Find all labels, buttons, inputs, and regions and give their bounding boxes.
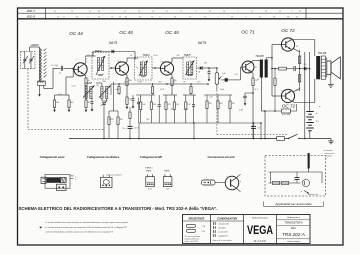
svg-text:120: 120 — [96, 85, 99, 87]
svg-text:4K7: 4K7 — [146, 119, 149, 121]
svg-text:TMF5: TMF5 — [183, 53, 191, 57]
svg-text:a carta 10%: a carta 10% — [218, 230, 228, 233]
svg-text:71: 71 — [63, 16, 65, 18]
svg-text:10 pF: 10 pF — [124, 82, 128, 84]
wire OC71 collector — [251, 61, 253, 63]
wire speaker to ground — [330, 75, 332, 85]
svg-text:100: 100 — [171, 109, 174, 111]
svg-text:MOD. B: MOD. B — [27, 17, 36, 19]
svg-text:8: 8 — [88, 16, 89, 18]
resistor bias at x166 — [165, 102, 167, 110]
inset resistor 2 — [282, 181, 289, 184]
transistor OC72 top — [281, 38, 294, 51]
wire fuse to switch — [285, 138, 289, 140]
svg-text:1 W: 1 W — [202, 231, 205, 233]
svg-text:schema elettrico: schema elettrico — [287, 240, 300, 243]
wire R2 drop — [68, 95, 70, 100]
aerial terminal stubs — [70, 175, 74, 177]
inset wire top — [269, 171, 323, 173]
svg-text:Radio Ricevitore: Radio Ricevitore — [252, 217, 269, 220]
svg-text:50: 50 — [59, 73, 61, 75]
svg-text:vista lato saldature: vista lato saldature — [106, 173, 122, 176]
variable capacitor CV1 — [23, 58, 26, 60]
svg-text:25: 25 — [255, 67, 257, 69]
svg-text:12: 12 — [57, 16, 59, 18]
svg-text:29: 29 — [231, 16, 233, 18]
svg-text:54: 54 — [296, 16, 298, 18]
svg-text:81: 81 — [125, 16, 127, 18]
capacitor legend symbols — [213, 222, 215, 225]
wire TMF4 to OC45b base — [152, 67, 161, 69]
wire TRU05 secondary top — [265, 58, 267, 60]
chassis below antenna — [39, 92, 41, 96]
svg-text:75: 75 — [189, 16, 191, 18]
wire bias to diode — [300, 68, 304, 70]
resistor bias at x185 — [185, 102, 187, 110]
wire secondary to OC72 top base — [271, 45, 273, 97]
oscillator coil LB468 — [85, 87, 87, 99]
wire OC72b collector — [292, 101, 295, 103]
wire coil tap to C1 — [43, 85, 45, 88]
speaker — [327, 61, 331, 75]
svg-text:OC 45: OC 45 — [165, 30, 179, 35]
wire OC45a collector — [125, 62, 127, 64]
tuning gang dashed box — [21, 51, 36, 68]
svg-text:5K6: 5K6 — [120, 119, 123, 121]
ground symbol right — [328, 140, 334, 142]
wire R17 to rail — [252, 86, 254, 139]
aerial connector left — [41, 177, 46, 183]
wire resistor to cap — [287, 68, 294, 70]
wire base bias tee — [72, 68, 74, 77]
svg-text:CONDENSATORI: CONDENSATORI — [217, 217, 237, 220]
wire net segment a — [136, 94, 155, 96]
svg-text:TRU05: TRU05 — [255, 54, 264, 58]
svg-text:batteria auto: batteria auto — [308, 193, 318, 196]
capacitor C11 — [208, 71, 211, 73]
chassis under C6 — [132, 104, 134, 108]
diode 0A79 detector — [200, 66, 202, 70]
svg-text:6: 6 — [246, 16, 247, 18]
svg-text:42: 42 — [54, 11, 56, 13]
svg-text:9 V: 9 V — [316, 121, 320, 123]
resistor R17 emitter OC71 — [252, 78, 254, 86]
svg-text:C17: C17 — [258, 128, 261, 130]
svg-text:OC 72: OC 72 — [282, 104, 296, 109]
junction secondary mid — [299, 68, 301, 70]
svg-text:Le tensioni possono variare en: Le tensioni possono variare entro un cam… — [46, 226, 127, 229]
socket pill pictogram — [202, 180, 216, 185]
svg-text:69: 69 — [138, 11, 140, 13]
svg-text:OC 44: OC 44 — [69, 31, 83, 36]
switch link dashed — [216, 90, 218, 135]
svg-text:10%: 10% — [197, 82, 201, 84]
svg-text:51: 51 — [204, 16, 206, 18]
svg-text:10: 10 — [124, 11, 126, 13]
electrolytic C9 — [128, 125, 133, 127]
battery 9V — [306, 111, 313, 113]
svg-text:TRS 202-A: TRS 202-A — [282, 232, 305, 237]
svg-text:8K2: 8K2 — [220, 103, 223, 105]
capacitor at x193 — [192, 104, 195, 106]
transistor OC44 — [74, 63, 87, 76]
svg-text:5: 5 — [238, 11, 239, 13]
junction rail diode — [309, 68, 311, 70]
capacitor C7a — [137, 101, 140, 103]
capacitor C16 — [293, 66, 295, 71]
antenna secondary winding — [38, 81, 46, 85]
AGC wire — [93, 51, 135, 53]
svg-text:10: 10 — [189, 61, 191, 63]
svg-text:8K2: 8K2 — [71, 102, 74, 104]
title block divider 2 — [243, 215, 245, 244]
svg-text:72: 72 — [259, 16, 261, 18]
resistor R7 emitter — [126, 78, 128, 86]
wire net segment c — [183, 94, 196, 96]
svg-text:680: 680 — [129, 80, 132, 82]
model col sep 2 — [277, 224, 311, 226]
title block header line — [183, 220, 244, 222]
svg-text:3K3: 3K3 — [153, 104, 156, 106]
wire R5 — [108, 111, 110, 117]
capacitor C14 bypass — [243, 95, 247, 97]
wire TMF3 secondary to OC45 base — [109, 67, 116, 69]
oscillator socket box — [101, 177, 113, 187]
resistor AGC a — [118, 87, 120, 94]
wire OC72t collector — [292, 39, 294, 42]
svg-text:74: 74 — [174, 16, 176, 18]
svg-text:75: 75 — [180, 11, 182, 13]
svg-text:16: 16 — [111, 16, 113, 18]
svg-text:7: 7 — [218, 16, 219, 18]
svg-text:TMF4: TMF4 — [142, 53, 150, 57]
svg-text:Collegamenti aerei: Collegamenti aerei — [40, 155, 65, 159]
svg-text:elettrolitici: elettrolitici — [218, 226, 227, 229]
IF transformer TMF3 dashed box — [92, 53, 109, 80]
svg-text:18: 18 — [273, 16, 275, 18]
chassis under R1 — [54, 108, 56, 112]
wire gang to coil top — [29, 47, 31, 51]
transistor OC45 second — [160, 62, 173, 75]
resistor R3 emitter OC44 — [85, 78, 87, 86]
riser x139 — [138, 123, 140, 139]
oscillator trimmer cap — [102, 102, 106, 104]
riser x194 — [193, 123, 195, 139]
car adapter dashed box — [265, 156, 326, 197]
riser x261 — [260, 123, 262, 139]
resistor R1 — [53, 100, 55, 108]
svg-text:55: 55 — [76, 16, 78, 18]
svg-text:+: + — [316, 111, 318, 115]
inset wire bottom — [269, 182, 301, 184]
svg-text:38: 38 — [287, 16, 289, 18]
capacitor C6 bypass — [132, 98, 135, 100]
svg-text:73: 73 — [98, 16, 100, 18]
chassis under R2 — [68, 108, 70, 112]
junction emitter node — [252, 92, 254, 94]
wire mid network — [272, 68, 279, 70]
junction base node — [72, 68, 74, 70]
aerial plug box — [57, 184, 67, 190]
svg-text:31: 31 — [299, 11, 301, 13]
svg-text:VEGA: VEGA — [247, 225, 273, 237]
svg-text:OC 45: OC 45 — [119, 30, 133, 35]
wire pot bottom — [216, 84, 218, 90]
switch lever — [289, 134, 298, 138]
svg-text:C1 47 pF: C1 47 pF — [51, 65, 59, 67]
wire osc coil to trimmer — [101, 99, 103, 102]
svg-text:2: 2 — [76, 60, 77, 62]
svg-text:5 KpF: 5 KpF — [220, 89, 225, 91]
svg-text:4K7: 4K7 — [88, 102, 91, 104]
resistor R2 — [68, 100, 70, 108]
svg-text:Le tensioni indicate sono stat: Le tensioni indicate sono state misurate… — [46, 221, 128, 224]
svg-text:51: 51 — [89, 11, 91, 13]
wire TMF3 feed — [109, 110, 118, 112]
wire rail to fuse — [265, 138, 277, 140]
svg-text:al morsetto: al morsetto — [324, 149, 333, 152]
svg-text:TMF4 e: TMF4 e — [145, 167, 153, 170]
wire diode to rail — [306, 68, 310, 70]
svg-text:Collegamenti oscillatore: Collegamenti oscillatore — [87, 155, 120, 159]
transistor OC71 — [242, 61, 254, 73]
wire switch to battery — [299, 138, 310, 140]
table divider left — [45, 8, 47, 19]
capacitor C3a — [91, 101, 94, 103]
svg-text:7: 7 — [112, 11, 113, 13]
wire emitter resistor down — [85, 86, 87, 101]
IF transformer TMF5 dashed box — [183, 57, 197, 79]
svg-text:OC 72: OC 72 — [281, 28, 295, 33]
aerial rod hatched end — [61, 177, 67, 183]
svg-text:25 μF: 25 μF — [239, 110, 243, 112]
resistor R18 horizontal — [279, 67, 287, 70]
volume potentiometer — [215, 73, 218, 85]
wire R11 down — [171, 86, 173, 96]
svg-text:50: 50 — [257, 79, 259, 81]
aerial ferrite rod dark — [47, 177, 61, 183]
rail x310 — [309, 110, 311, 112]
svg-text:8: 8 — [196, 11, 197, 13]
title block divider 1 — [210, 215, 212, 244]
svg-text:56: 56 — [265, 11, 267, 13]
resistor bias at x140 — [140, 102, 142, 110]
svg-text:TMF3: TMF3 — [94, 49, 102, 53]
svg-text:22 nF: 22 nF — [153, 55, 157, 57]
wire secondary to OC72 bottom base — [272, 95, 281, 97]
resistor R15 — [217, 101, 219, 109]
title block divider 3 — [276, 215, 278, 244]
resistor R22 horizontal — [282, 109, 291, 113]
svg-text:4K7: 4K7 — [159, 82, 162, 84]
oscillator socket pins — [102, 175, 104, 178]
svg-text:C10: C10 — [209, 97, 212, 99]
svg-text:C8: C8 — [173, 82, 175, 84]
junction x305 rail — [309, 102, 311, 104]
svg-text:antenna del: antenna del — [324, 152, 334, 155]
svg-text:5K6: 5K6 — [184, 109, 187, 111]
svg-text:RESISTENZE: RESISTENZE — [189, 217, 205, 220]
wire OC45b emitter — [170, 73, 172, 75]
svg-text:9: 9 — [292, 11, 293, 13]
wire net segment b — [163, 94, 177, 96]
wire C1 to base OC44 — [63, 67, 73, 69]
resistor R8 — [126, 97, 128, 105]
inset resistor 1 — [273, 181, 280, 184]
svg-text:13: 13 — [152, 11, 154, 13]
capacitor C1 — [60, 66, 62, 71]
svg-text:1K2: 1K2 — [176, 55, 179, 57]
svg-text:28: 28 — [223, 11, 225, 13]
wire osc top to OC44 — [85, 86, 87, 87]
junction detector out — [208, 67, 210, 69]
wire R22 to rail — [291, 110, 297, 112]
diode 0A79 AGC — [112, 50, 114, 54]
svg-text:Corrente della batteria assorb: Corrente della batteria assorbita a ripo… — [46, 231, 114, 234]
ground rail y123 — [139, 122, 261, 124]
driver transformer TRU05 secondary — [265, 60, 268, 78]
wire R6 — [117, 111, 119, 117]
svg-text:1600: 1600 — [102, 81, 106, 83]
ground under speaker — [328, 84, 334, 86]
resistor R6 — [117, 117, 119, 125]
svg-text:29: 29 — [119, 16, 121, 18]
electrolytic C17 — [251, 125, 256, 127]
rail x305 — [309, 52, 311, 111]
svg-text:Radioricevitore: Radioricevitore — [287, 216, 300, 219]
MF transformer pictogram 2 — [163, 177, 172, 187]
bias chain wire — [299, 50, 301, 91]
svg-text:e: e — [227, 176, 228, 178]
wire AGC left drop — [110, 84, 112, 95]
svg-text:b: b — [240, 181, 241, 183]
model col sep 1 — [277, 219, 311, 221]
MF transformer pictogram 1 — [146, 177, 155, 187]
svg-text:4 B 5: 4 B 5 — [148, 188, 152, 190]
resistor R5 — [108, 117, 110, 125]
IF transformer TMF4 dashed box — [135, 57, 153, 80]
capacitor at x159 — [158, 104, 161, 106]
chassis under R4 — [85, 108, 87, 112]
svg-text:C7: C7 — [142, 61, 144, 63]
wire primary top — [314, 55, 316, 57]
svg-text:Collegamenti MF: Collegamenti MF — [140, 155, 163, 159]
svg-text:400 OHM: 400 OHM — [282, 114, 290, 116]
output stage top line — [293, 39, 315, 41]
driver transformer TRU05 primary — [260, 60, 263, 78]
resistor R14 base bias — [229, 101, 231, 109]
wire OC71 emitter — [251, 72, 253, 74]
wire OC45a emitter — [125, 73, 127, 75]
wire OC44 collector — [84, 63, 86, 65]
resistor AGC c — [190, 87, 192, 94]
resistor legend symbol 2 — [187, 229, 196, 232]
wire cap to OC71 base — [234, 79, 241, 81]
svg-text:C13: C13 — [234, 74, 237, 76]
junction TRU05 rail — [264, 138, 266, 140]
resistor R9 above C9 — [129, 112, 131, 119]
resistor R21 bias bottom — [299, 75, 301, 83]
supply rail y138 — [69, 138, 265, 140]
svg-text:OC 71: OC 71 — [241, 30, 255, 35]
svg-text:0A79: 0A79 — [109, 41, 117, 45]
svg-text:65: 65 — [209, 11, 211, 13]
svg-text:20: 20 — [71, 11, 73, 13]
wire secondary down — [39, 85, 41, 92]
svg-text:LB469: LB469 — [31, 43, 39, 47]
aerial wire loop — [45, 175, 70, 189]
gang mechanical dashed link vertical — [27, 69, 29, 130]
rail x314 — [314, 40, 316, 57]
fuse resistor box — [277, 137, 285, 141]
svg-text:47: 47 — [166, 11, 168, 13]
svg-text:LB468: LB468 — [85, 82, 93, 85]
title block outer box — [183, 215, 311, 244]
table bottom thick line — [18, 18, 344, 20]
svg-text:TMF5: TMF5 — [164, 170, 170, 172]
output transformer TRU06 secondary — [321, 56, 325, 79]
svg-text:75: 75 — [151, 16, 153, 18]
svg-text:54: 54 — [279, 11, 281, 13]
wire R7 down — [126, 86, 128, 98]
wire diode to volume — [203, 67, 217, 69]
svg-text:81: 81 — [139, 16, 141, 18]
svg-text:12: 12 — [251, 11, 253, 13]
wire R1 drop — [54, 95, 56, 100]
model col sep 3 — [277, 238, 311, 240]
AGC distribution wire — [111, 83, 208, 85]
svg-text:a: a — [75, 177, 76, 179]
resistor R19 — [274, 78, 276, 86]
inset electrolytic — [295, 177, 300, 179]
emitter resistor line — [265, 110, 282, 112]
wire secondary to speaker top — [326, 57, 327, 59]
wire TMF5 to diode — [197, 67, 200, 69]
resistor bias at x174 — [173, 102, 175, 110]
transistor OC45 first — [115, 62, 128, 75]
svg-text:Mod.: Mod. — [291, 228, 296, 230]
resistor legend symbol 1 — [187, 224, 196, 227]
svg-text:M I L A N O: M I L A N O — [254, 240, 266, 243]
transistor OC72 bottom — [281, 89, 294, 102]
resistor R11 emitter — [171, 78, 173, 86]
wire battery to ground — [310, 138, 331, 140]
svg-text:84: 84 — [98, 11, 100, 13]
svg-text:R5: R5 — [109, 119, 111, 121]
car antenna jack bar — [308, 153, 310, 169]
svg-text:Connessioni zoccoli: Connessioni zoccoli — [207, 155, 234, 159]
output transformer TRU06 primary — [316, 56, 320, 79]
svg-text:10%: 10% — [122, 128, 126, 130]
svg-text:Applicabile per automobile: Applicabile per automobile — [274, 202, 312, 206]
table divider right — [305, 8, 307, 19]
wire osc to bottom rail — [103, 105, 105, 139]
chassis under R8 — [126, 105, 128, 109]
svg-text:TRU06: TRU06 — [318, 51, 327, 55]
svg-text:MOD. C: MOD. C — [27, 11, 36, 13]
wire OC44 emitter — [84, 74, 86, 76]
wire secondary to speaker bottom — [326, 76, 327, 78]
diode bias — [304, 67, 306, 71]
svg-text:ceramici 10%: ceramici 10% — [218, 223, 229, 225]
svg-text:0A79: 0A79 — [198, 41, 206, 45]
wire net segment d — [204, 94, 232, 96]
svg-text:1K5: 1K5 — [176, 104, 179, 106]
inset transistor circle — [302, 179, 309, 186]
junction osc rail — [103, 138, 105, 140]
svg-text:ricevitore: ricevitore — [325, 155, 332, 158]
svg-text:TRANSISTOR 6: TRANSISTOR 6 — [284, 222, 303, 225]
